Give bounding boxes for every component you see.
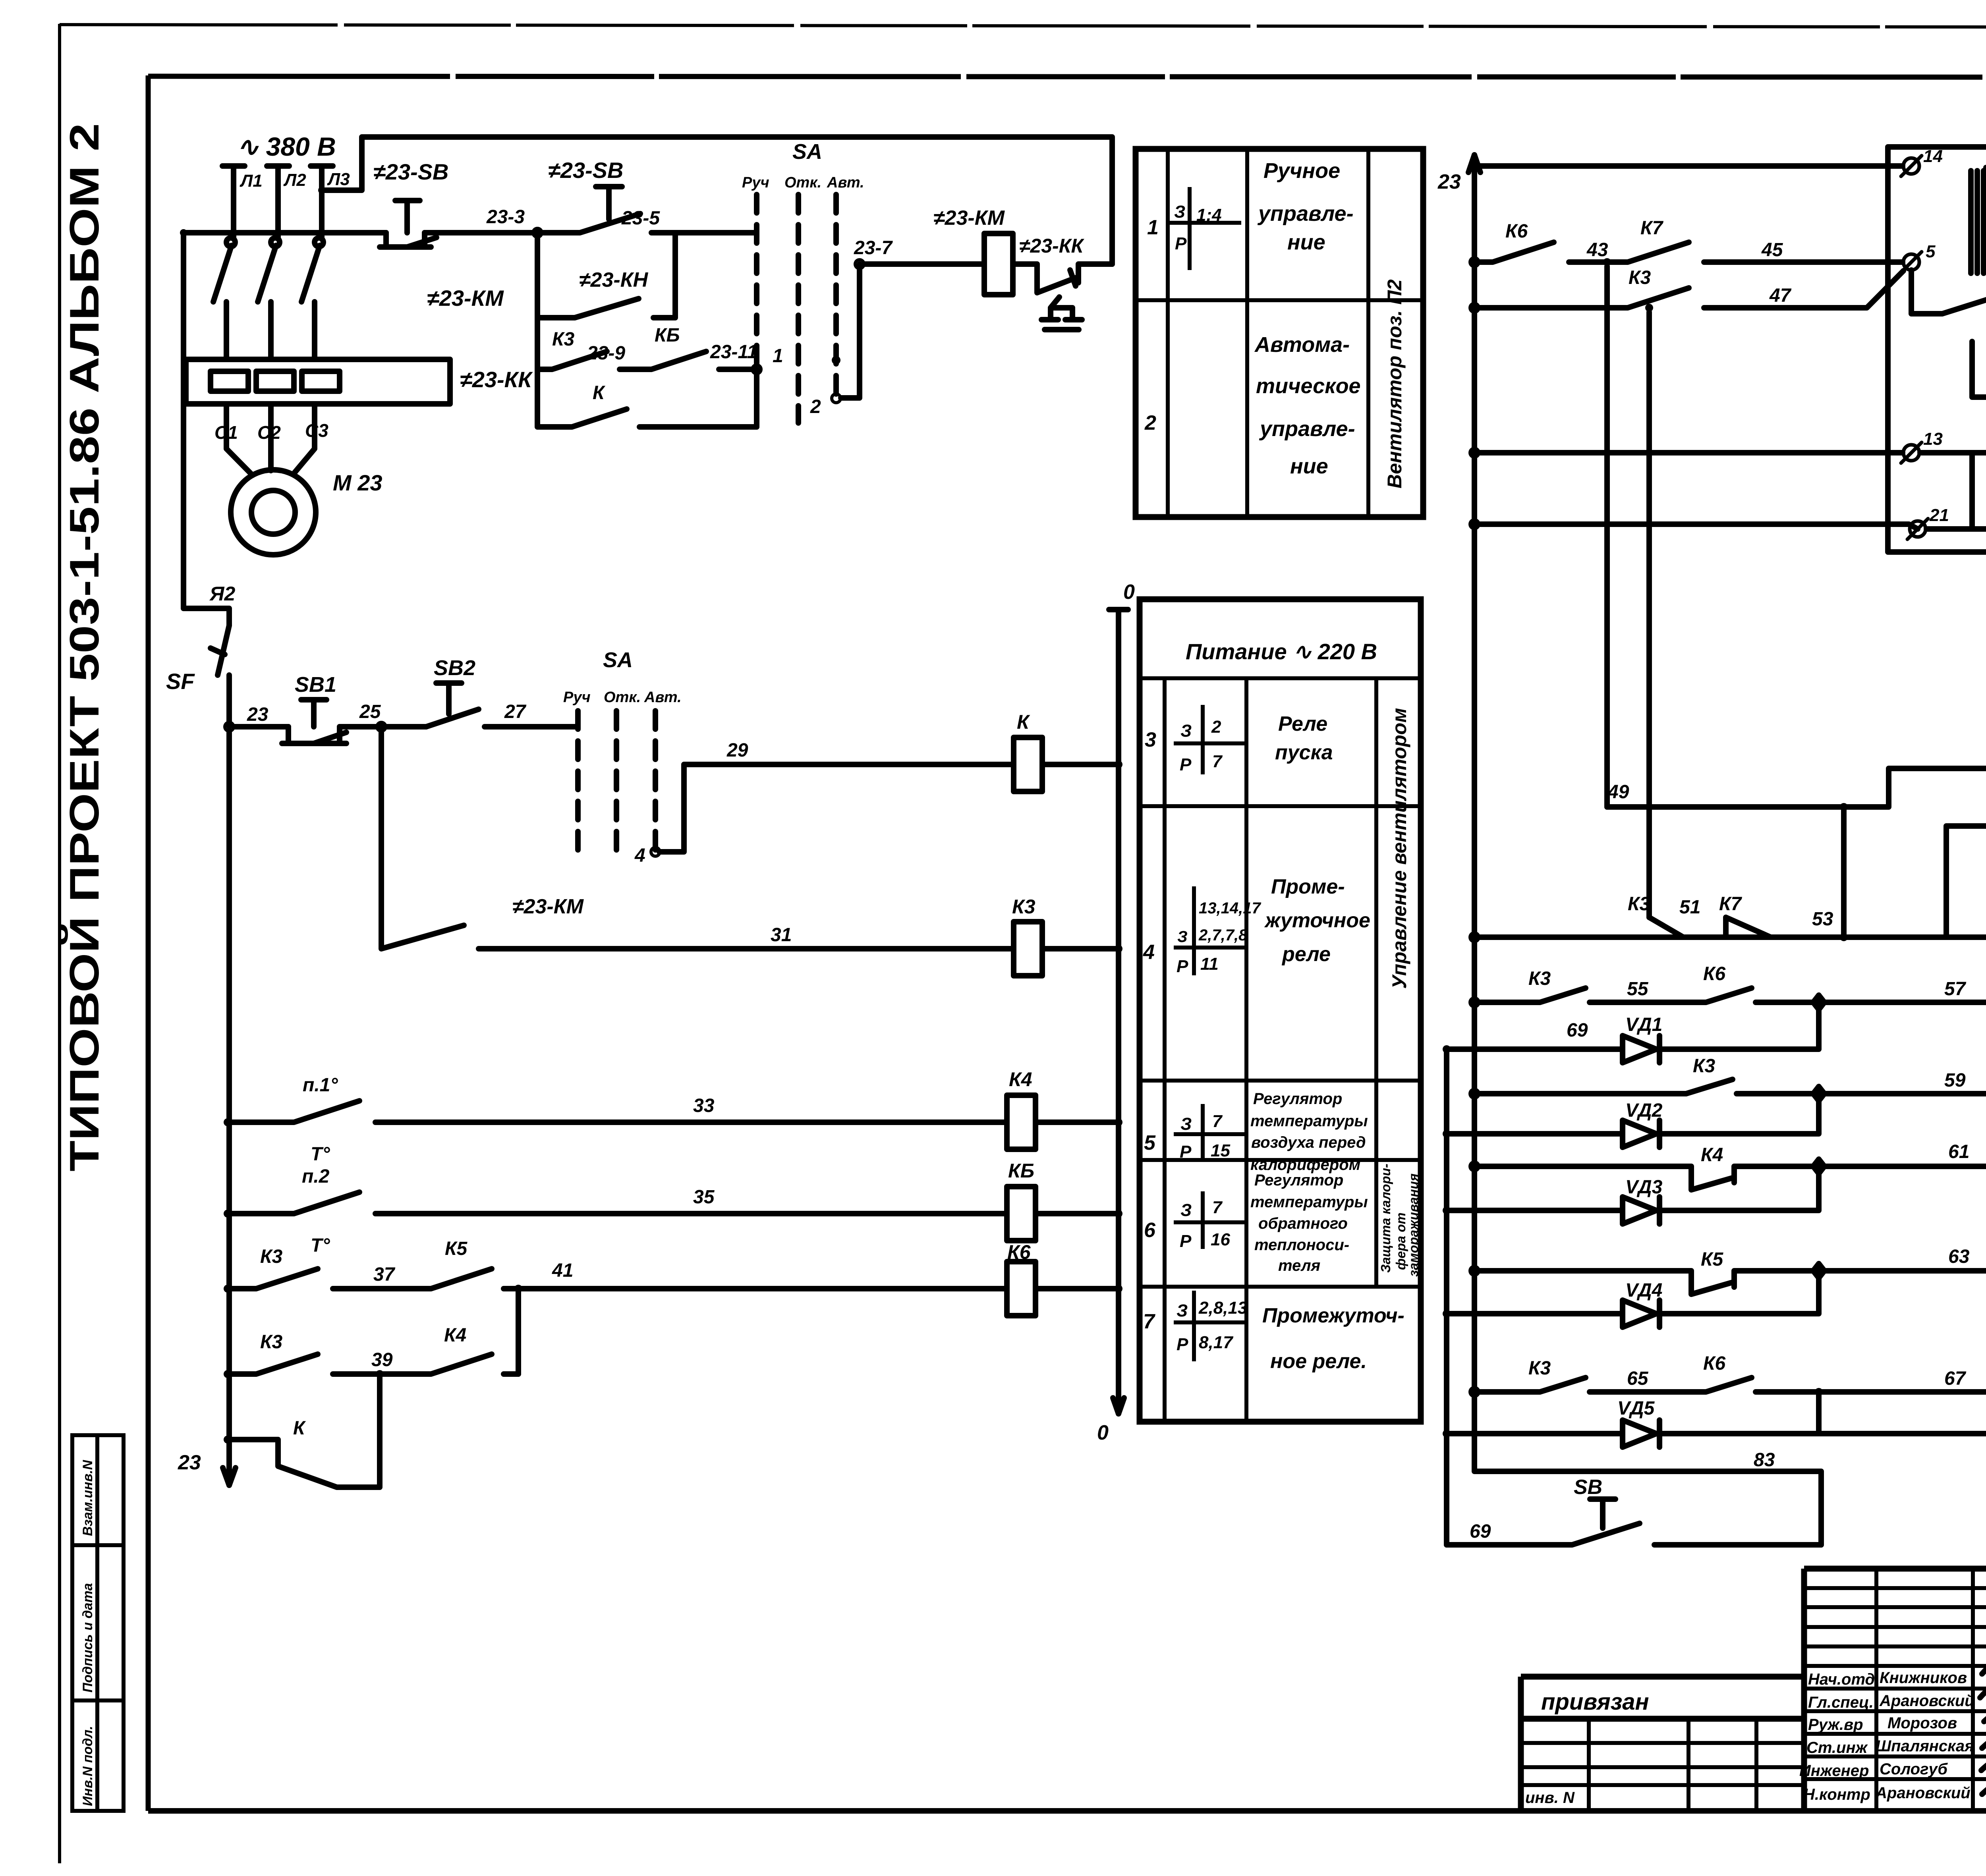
svg-text:2: 2 [810, 396, 821, 417]
wire 23-7 to coil [864, 261, 984, 267]
junction diode bus VD4 [1443, 1310, 1451, 1318]
outer sheet border top (dashed) [60, 25, 1986, 28]
svg-text:К3: К3 [260, 1246, 283, 1267]
svg-text:воздуха перед: воздуха перед [1251, 1134, 1366, 1151]
svg-text:Л3: Л3 [327, 170, 350, 189]
selector SA lower dashed Ruch [575, 711, 581, 850]
left margin stamp column box [72, 1435, 124, 1811]
privyazan cell [1521, 1677, 1804, 1811]
svg-text:ное реле.: ное реле. [1270, 1350, 1367, 1373]
svg-text:Управление вентилятором: Управление вентилятором [1388, 708, 1410, 989]
svg-text:инв. N: инв. N [1525, 1789, 1575, 1807]
svg-text:К6: К6 [1505, 221, 1528, 242]
svg-text:13,14,17: 13,14,17 [1199, 899, 1261, 917]
bus 0 junction K6 [1115, 1285, 1122, 1293]
svg-text:59: 59 [1944, 1070, 1966, 1091]
svg-text:жуточное: жуточное [1264, 909, 1370, 932]
row5 fraction [1174, 1104, 1247, 1160]
junction bus/HL4 [1470, 1162, 1479, 1171]
svg-text:калорифером: калорифером [1250, 1156, 1360, 1173]
relay coil K3 [1014, 922, 1042, 976]
contactor pole 2 [258, 222, 278, 359]
test button SB row [1447, 1499, 1821, 1545]
svg-text:23-11: 23-11 [710, 342, 757, 363]
svg-text:16: 16 [1211, 1230, 1230, 1249]
inner drawing frame bottom [148, 1808, 1986, 1814]
svg-text:Т°: Т° [311, 1144, 330, 1165]
svg-text:Инв.N подл.: Инв.N подл. [80, 1726, 95, 1806]
svg-text:Шпалянская: Шпалянская [1876, 1737, 1974, 1755]
junction bus/14 [1470, 162, 1479, 170]
thermal release symbol [1041, 297, 1082, 330]
svg-text:23: 23 [1437, 170, 1461, 193]
inner drawing frame left [146, 75, 151, 1811]
junction bus/HL5 [1470, 1266, 1479, 1275]
riser between 49 and 53 [1841, 807, 1847, 937]
junction bus/HL2 [1470, 998, 1479, 1007]
row P2 thermostat [228, 1192, 1007, 1214]
bus 0 junction K3 [1115, 945, 1122, 953]
row K3 51 K7 53 [1649, 826, 1986, 937]
svg-text:≠23-КМ: ≠23-КМ [933, 207, 1005, 230]
svg-text:К5: К5 [1701, 1249, 1724, 1270]
svg-text:К6: К6 [1703, 1353, 1726, 1374]
svg-text:К4: К4 [1009, 1068, 1032, 1090]
svg-text:температуры: температуры [1250, 1112, 1368, 1130]
svg-text:М 23: М 23 [333, 470, 383, 495]
svg-text:2,8,13: 2,8,13 [1198, 1298, 1247, 1318]
svg-text:51: 51 [1679, 897, 1700, 918]
svg-text:З: З [1180, 721, 1192, 741]
svg-text:0: 0 [1097, 1421, 1109, 1444]
svg-text:41: 41 [552, 1260, 573, 1281]
svg-text:15: 15 [1211, 1141, 1230, 1160]
svg-text:SB1: SB1 [295, 673, 336, 697]
table rows 1-2 outline [1136, 149, 1423, 517]
svg-text:VД3: VД3 [1625, 1177, 1663, 1198]
node 4 [651, 847, 660, 856]
svg-text:Гл.спец.: Гл.спец. [1808, 1694, 1874, 1711]
junction diode bus VD1 [1443, 1045, 1451, 1053]
button SB2 (start, NO) [426, 683, 479, 727]
row P1 thermostat [228, 1101, 1007, 1122]
breaker SF [211, 625, 229, 727]
bus 23 top arrow [1468, 155, 1480, 172]
svg-text:Л2: Л2 [283, 170, 306, 190]
feed divider 6/7 [1140, 1285, 1421, 1289]
svg-text:43: 43 [1586, 239, 1608, 261]
svg-text:≠23-SB: ≠23-SB [548, 158, 623, 183]
svg-text:Авт.: Авт. [644, 689, 682, 706]
svg-text:К7: К7 [1719, 894, 1743, 915]
riser joining rows to node 1 [754, 369, 759, 427]
svg-text:23-3: 23-3 [486, 207, 525, 228]
svg-text:Р: Р [1180, 755, 1192, 774]
row1 fraction cross [1168, 187, 1241, 270]
LEFTTITLE [61, 123, 108, 1172]
svg-text:пуска: пуска [1275, 741, 1333, 764]
signature squiggles [1982, 1664, 1986, 1674]
button SB1 (stop, NC) [282, 700, 346, 743]
svg-text:≠23-SB: ≠23-SB [373, 159, 448, 184]
svg-text:39: 39 [371, 1349, 393, 1370]
svg-text:З: З [1174, 202, 1185, 222]
wire to terminal 13 [1474, 450, 1903, 455]
svg-text:К: К [593, 382, 606, 403]
wire 586 to node A [425, 230, 537, 235]
svg-text:69: 69 [1567, 1020, 1588, 1041]
svg-text:4: 4 [634, 845, 645, 866]
svg-text:7: 7 [1212, 1112, 1223, 1131]
holding contact 23-KM vertical from node 25 [381, 731, 1014, 949]
svg-text:п.1°: п.1° [303, 1075, 338, 1096]
junction bus/45 [1470, 258, 1479, 266]
thermal contact #23-KK (NC) [1013, 264, 1112, 293]
svg-text:Сологуб: Сологуб [1880, 1760, 1948, 1778]
svg-text:27: 27 [504, 701, 527, 722]
svg-text:Нач.отд: Нач.отд [1808, 1671, 1875, 1688]
bus 0 left vertical [1116, 610, 1121, 1414]
svg-text:4: 4 [1143, 941, 1155, 964]
junction 37 [224, 1285, 232, 1293]
contactor coil #23-KM [984, 234, 1013, 295]
node on row 39 [376, 1370, 384, 1378]
svg-text:≠23-КМ: ≠23-КМ [512, 895, 584, 918]
horn row HA: K3 65 K6 67 [1474, 1378, 1986, 1392]
table12 vertical fraction col [1245, 149, 1249, 517]
junction diamond HL5/VD4 [1813, 1264, 1824, 1278]
signature rows [1804, 1687, 1986, 1691]
svg-text:КБ: КБ [1008, 1160, 1034, 1182]
svg-text:SB2: SB2 [434, 656, 475, 680]
relay coil K5 [1007, 1187, 1036, 1241]
svg-text:п.2: п.2 [302, 1166, 330, 1187]
svg-text:замораживания: замораживания [1406, 1173, 1421, 1277]
svg-text:49: 49 [1607, 782, 1629, 803]
svg-text:К: К [1017, 711, 1030, 733]
svg-text:≠23-КК: ≠23-КК [460, 367, 533, 392]
svg-text:Инженер: Инженер [1799, 1762, 1869, 1779]
bus 0 top tick [1109, 607, 1128, 612]
svg-text:К5: К5 [445, 1238, 468, 1259]
node 2 [832, 394, 840, 403]
terminal 14 [1903, 158, 1919, 174]
svg-text:К6: К6 [1007, 1241, 1031, 1263]
lower-left grid verticals [1587, 1719, 1591, 1811]
svg-text:7: 7 [1212, 752, 1223, 771]
svg-text:Питание ∿ 220 В: Питание ∿ 220 В [1186, 639, 1377, 664]
POWER [166, 132, 1119, 976]
node 25 [377, 722, 386, 731]
control tap vertical from bus [184, 233, 229, 625]
riser horn/VD5 [1816, 1392, 1822, 1434]
svg-text:С1: С1 [214, 422, 238, 443]
table12 vertical desc col [1366, 149, 1370, 517]
svg-text:33: 33 [693, 1095, 715, 1116]
svg-text:SВ: SВ [1574, 1476, 1602, 1499]
svg-text:Руч: Руч [563, 689, 591, 706]
TITLEBLOCK [1521, 1569, 1986, 1811]
svg-text:К4: К4 [1701, 1145, 1723, 1166]
svg-text:К6: К6 [1703, 963, 1726, 984]
wire 29 from node 4 to relay K [659, 764, 1014, 852]
svg-text:Проме-: Проме- [1271, 875, 1345, 898]
svg-text:0: 0 [1123, 581, 1135, 604]
feed vertical desc col [1374, 678, 1378, 1287]
svg-text:2,7,7,8: 2,7,7,8 [1198, 926, 1248, 944]
thermal relay heater 2 [256, 371, 294, 391]
junction diode bus VD3 [1443, 1206, 1451, 1214]
svg-text:45: 45 [1761, 239, 1783, 261]
motor M23 inner circle [251, 490, 295, 534]
svg-text:VД1: VД1 [1625, 1014, 1662, 1035]
svg-text:теплоноси-: теплоноси- [1254, 1236, 1349, 1254]
svg-text:Руж.вр: Руж.вр [1808, 1716, 1863, 1733]
bus 0 junction K5 [1115, 1210, 1122, 1218]
riser 49 from junction 43 [1604, 266, 1610, 807]
svg-text:23-7: 23-7 [854, 237, 893, 259]
junction bus/HL1 [1470, 933, 1479, 942]
svg-text:37: 37 [373, 1264, 396, 1285]
svg-text:23-5: 23-5 [621, 208, 660, 229]
wire K5 to bus [1036, 1211, 1119, 1216]
bus 23 right vertical [1474, 155, 1821, 1545]
svg-text:К3: К3 [1693, 1056, 1716, 1077]
selector SA upper dashed Ruch [754, 195, 759, 363]
svg-text:Арановский: Арановский [1879, 1692, 1974, 1710]
svg-text:Отк.: Отк. [604, 689, 641, 706]
svg-text:Авт.: Авт. [827, 174, 864, 191]
junction 49/riser [1840, 803, 1848, 811]
wire 49 [1607, 768, 1986, 807]
branch contact #23-KN [537, 233, 675, 318]
svg-text:23: 23 [178, 1451, 201, 1474]
svg-text:8,17: 8,17 [1199, 1333, 1234, 1352]
svg-text:Подпись и дата: Подпись и дата [80, 1583, 95, 1693]
svg-text:реле: реле [1281, 943, 1331, 966]
svg-text:ние: ние [1290, 454, 1328, 478]
junction 53/riser [1840, 933, 1848, 941]
svg-text:Морозов: Морозов [1887, 1714, 1957, 1732]
svg-text:С2: С2 [257, 422, 281, 443]
feed divider 3/4 [1140, 804, 1421, 808]
svg-text:Ст.инж: Ст.инж [1806, 1739, 1868, 1756]
svg-text:53: 53 [1812, 909, 1833, 930]
riser 53 from junction 47 [1646, 312, 1652, 917]
lamp row HL2: K3 55 K6 57 [1474, 988, 1986, 1002]
junction 39 [224, 1370, 232, 1378]
phase line L2 [267, 166, 289, 222]
diode VD3 row [1447, 1173, 1819, 1224]
node 1 [752, 365, 761, 374]
svg-text:≠23-КН: ≠23-КН [579, 268, 649, 291]
svg-text:тическое: тическое [1256, 374, 1361, 398]
feed table outline [1140, 599, 1421, 1422]
svg-text:25: 25 [359, 701, 381, 722]
svg-text:Книжников: Книжников [1880, 1669, 1967, 1687]
button S2 in box [1911, 270, 1986, 314]
svg-text:1: 1 [773, 345, 783, 367]
junction bus/HL3 [1470, 1089, 1479, 1098]
motor lead C1 [226, 404, 252, 475]
svg-text:83: 83 [1754, 1449, 1775, 1471]
svg-text:1: 1 [1147, 216, 1159, 239]
diode VD2 row [1447, 1101, 1819, 1147]
svg-text:Регулятор: Регулятор [1254, 1172, 1343, 1189]
svg-text:К3: К3 [1629, 267, 1651, 288]
terminal 5 [1903, 254, 1919, 270]
svg-text:Реле: Реле [1278, 712, 1327, 735]
svg-text:Защита калори-: Защита калори- [1378, 1164, 1393, 1273]
junction 47 [1645, 304, 1653, 312]
svg-text:Отк.: Отк. [784, 174, 821, 191]
contact K1 in box [1926, 511, 1986, 529]
wire to terminal 21 [1474, 524, 1918, 529]
svg-text:13: 13 [1923, 429, 1943, 449]
svg-text:Промежуточ-: Промежуточ- [1262, 1304, 1404, 1327]
svg-text:Я2: Я2 [209, 583, 235, 605]
junction bus/21 [1470, 520, 1479, 529]
stamp column divider vertical [95, 1435, 99, 1811]
svg-text:67: 67 [1944, 1368, 1967, 1389]
row K3 23-9 KB 23-11 [537, 318, 757, 369]
svg-text:11: 11 [1200, 954, 1219, 974]
svg-text:65: 65 [1627, 1368, 1649, 1389]
selector SA lower dashed Avt [653, 711, 658, 850]
horizontal bus wire at 586 [184, 230, 386, 235]
row K holding [537, 369, 757, 427]
svg-text:∿ 380 В: ∿ 380 В [237, 132, 336, 161]
dot on Avt line [832, 356, 840, 365]
box internal riser 3 [1969, 453, 1975, 529]
box P1 outline [1888, 147, 1986, 552]
row7 fraction [1174, 1291, 1245, 1361]
row K bypass contact [228, 1374, 380, 1487]
svg-text:температуры: температуры [1250, 1193, 1368, 1211]
row3 fraction [1174, 705, 1247, 774]
table12 divider row1/2 [1136, 298, 1423, 302]
contact K2 in box [1920, 435, 1986, 453]
FEEDTABLE [1136, 149, 1423, 1422]
wire from L3 to top feeder bus [322, 137, 1112, 264]
lower-left grid rows [1521, 1741, 1804, 1745]
lamp row HL1 wire [1474, 934, 1986, 940]
svg-text:К3: К3 [1628, 894, 1650, 915]
node 23 [225, 722, 234, 731]
button #23-SB first (NC with bridge) [380, 201, 437, 247]
lamp row HL5: K5 63 [1474, 1271, 1986, 1294]
svg-text:VД2: VД2 [1625, 1100, 1663, 1121]
svg-text:управле-: управле- [1259, 417, 1355, 441]
junction P2 [224, 1210, 232, 1218]
svg-text:Вентилятор поз. П2: Вентилятор поз. П2 [1383, 279, 1406, 488]
phase line L3 [311, 166, 333, 222]
feed header divider [1140, 676, 1421, 680]
svg-text:З: З [1177, 928, 1188, 946]
junction bus/13 [1470, 448, 1479, 457]
box internal riser 1 [1972, 342, 1986, 453]
svg-text:Л1: Л1 [240, 171, 263, 191]
lamp row HL4: K4 61 [1474, 1166, 1986, 1190]
junction P1 [224, 1118, 232, 1126]
tick on KK contact [1070, 270, 1076, 286]
selector SA upper dashed Otk [796, 195, 801, 423]
relay coil K4 [1007, 1095, 1036, 1149]
wire 23 to SB1 [234, 724, 288, 730]
stamp column divider rows [72, 1543, 124, 1547]
junction bus/47 [1470, 303, 1479, 312]
selector SA upper dashed Avt [833, 195, 839, 395]
feed divider 4/5 [1140, 1079, 1421, 1083]
svg-text:теля: теля [1278, 1257, 1320, 1274]
svg-text:К3: К3 [260, 1332, 283, 1353]
svg-text:обратного: обратного [1258, 1215, 1348, 1232]
wire 25 [340, 724, 426, 730]
svg-text:Р: Р [1180, 1231, 1192, 1251]
bus 0 junction K4 [1115, 1118, 1122, 1126]
svg-text:31: 31 [771, 924, 792, 946]
svg-text:Т°: Т° [311, 1235, 330, 1256]
thermal relay heater 1 [211, 371, 248, 391]
junction diamond HL3/VD2 [1813, 1087, 1824, 1101]
svg-text:6: 6 [1144, 1219, 1156, 1242]
thermal relay 23-KK box [186, 359, 450, 404]
svg-text:З: З [1180, 1200, 1192, 1220]
svg-text:57: 57 [1944, 979, 1967, 1000]
svg-text:29: 29 [726, 740, 748, 761]
svg-text:7: 7 [1212, 1198, 1223, 1217]
junction diode bus VD2 [1443, 1130, 1451, 1138]
row6 fraction [1174, 1191, 1247, 1249]
svg-text:3: 3 [1145, 728, 1156, 751]
svg-text:SA: SA [792, 140, 822, 164]
svg-text:≠23-КК: ≠23-КК [1019, 235, 1084, 257]
svg-text:55: 55 [1627, 979, 1649, 1000]
feed divider 5/6 [1140, 1158, 1421, 1162]
svg-text:≠23-КМ: ≠23-КМ [427, 286, 504, 311]
table12 vertical number col [1166, 149, 1170, 517]
lamp row HL3: K3 59 [1474, 1079, 1986, 1094]
svg-text:З: З [1177, 1301, 1188, 1320]
svg-text:Арановский: Арановский [1875, 1784, 1971, 1802]
junction diamond HL2/VD1 [1813, 995, 1824, 1009]
svg-text:управле-: управле- [1257, 202, 1354, 226]
junction L3 [318, 187, 325, 194]
svg-text:Р: Р [1177, 1335, 1188, 1354]
svg-text:23-9: 23-9 [587, 343, 625, 364]
wire K4 to bus [1036, 1119, 1119, 1125]
node 23-7 [855, 260, 864, 268]
svg-text:2: 2 [1211, 717, 1221, 737]
small revision rows [1804, 1586, 1986, 1590]
wire K coil to bus 0 [1042, 762, 1119, 767]
selector SA lower dashed Otk [614, 711, 619, 850]
terminal 21 [1910, 521, 1926, 537]
motor lead C2 [268, 404, 274, 471]
svg-text:К3: К3 [552, 329, 575, 350]
svg-text:1:4: 1:4 [1196, 205, 1222, 225]
svg-text:К3: К3 [1012, 896, 1036, 918]
left bus 23 vertical [226, 731, 232, 1485]
svg-text:VД4: VД4 [1625, 1280, 1662, 1301]
relay coil K [1014, 737, 1042, 791]
motor M23 outer circle [231, 470, 316, 555]
row K3 47 [1474, 271, 1903, 308]
svg-text:23: 23 [247, 704, 269, 725]
svg-text:К7: К7 [1640, 218, 1664, 239]
RIGHTCIRCUIT [1437, 86, 1986, 1545]
relay coil K6 [1007, 1262, 1036, 1316]
